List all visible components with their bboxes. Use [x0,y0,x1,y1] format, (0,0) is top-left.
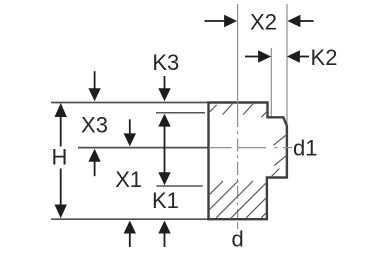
svg-text:K3: K3 [152,50,179,75]
reference line K1 upper level [156,185,202,187]
svg-text:X2: X2 [250,9,277,34]
dimension X3 arrows [88,71,100,176]
svg-text:X1: X1 [115,167,142,192]
svg-text:d: d [231,227,243,252]
part body outline [209,103,287,220]
svg-text:X3: X3 [81,113,108,138]
dimension X1 arrows [124,119,136,247]
centerline vertical axis [237,4,239,218]
svg-text:K1: K1 [152,188,179,213]
extension line inner (K2 left reference) [270,48,272,117]
dimension X2 [205,15,314,27]
centerline d below part [237,222,239,229]
svg-text:d1: d1 [293,136,317,161]
hatch ticks branch edge [271,134,287,177]
dimension K3/K1 arrows [158,76,170,247]
hatch ticks top edge [210,104,268,117]
extension line outer right edge [286,4,288,126]
reference line L2 branch centerline extension [78,147,210,149]
svg-text:H: H [52,145,68,170]
reference line L1 top edge extension [51,102,209,104]
svg-text:K2: K2 [311,45,338,70]
hatch lower band [210,181,266,218]
reference line K3 lower level [156,112,205,114]
centerline horizontal axis (branch) [209,147,292,149]
dimension K2 [245,50,309,62]
reference line L4 bottom edge extension [51,218,209,220]
dimension H [55,103,67,218]
